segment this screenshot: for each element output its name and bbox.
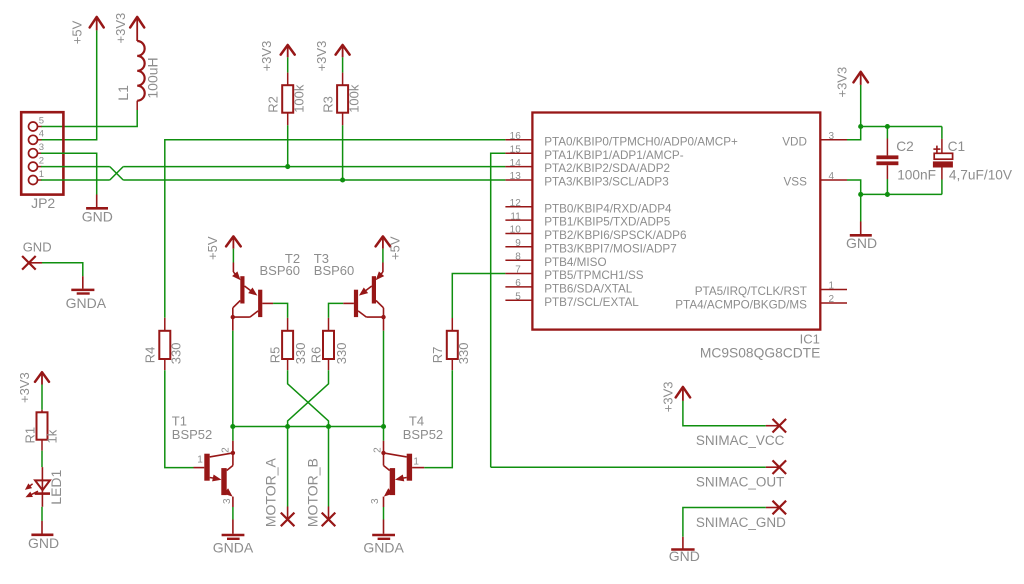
svg-text:1: 1 xyxy=(829,281,835,292)
resistor R5 330 xyxy=(267,318,308,370)
supply +3V3 (SNIMAC_VCC) xyxy=(660,381,690,412)
junction T2 output node xyxy=(230,424,235,429)
wire +3V3 to R3 xyxy=(342,57,344,72)
svg-text:VSS: VSS xyxy=(784,176,808,189)
wire T2 collector to R5 xyxy=(273,303,288,318)
IC1 pin 16 PTA0/KBIP0/TPMCH0/ADP0/AMCP+ xyxy=(505,131,738,148)
svg-text:R1: R1 xyxy=(23,427,38,444)
svg-text:PTB5/TPMCH1/SS: PTB5/TPMCH1/SS xyxy=(544,269,644,282)
svg-text:PTA5/IRQ/TCLK/RST: PTA5/IRQ/TCLK/RST xyxy=(695,285,807,298)
wire T2 output down xyxy=(232,331,234,427)
svg-text:MOTOR_A: MOTOR_A xyxy=(262,457,278,527)
svg-text:12: 12 xyxy=(510,198,522,209)
svg-text:PTA3/KBIP3/SCL/ADP3: PTA3/KBIP3/SCL/ADP3 xyxy=(544,176,669,189)
IC1 pin 8 PTB4/MISO xyxy=(505,251,606,268)
wire net SDA row to IC pin 14 xyxy=(123,166,505,168)
wire VDD pin to rail xyxy=(847,127,861,140)
svg-text:+5V: +5V xyxy=(388,236,403,260)
resistor R1 1k xyxy=(23,410,60,451)
svg-text:13: 13 xyxy=(510,171,522,182)
svg-text:100uH: 100uH xyxy=(144,57,160,98)
IC1 pin 10 PTB2/KBPI6/SPSCK/ADP6 xyxy=(505,225,686,242)
wire +5V to T3 emitter xyxy=(382,249,384,263)
svg-text:PTA4/ACMPO/BKGD/MS: PTA4/ACMPO/BKGD/MS xyxy=(675,299,807,312)
wire GND stub to GNDA xyxy=(42,263,83,276)
svg-text:16: 16 xyxy=(510,131,522,142)
IC1 pin 15 PTA1/KBIP1/ADP1/AMCP- xyxy=(505,144,683,161)
svg-text:2: 2 xyxy=(829,294,835,305)
transistor T3 BSP60 xyxy=(314,251,386,331)
resistor R4 330 xyxy=(143,318,184,370)
svg-text:+3V3: +3V3 xyxy=(113,13,128,44)
net stub MOTOR_A xyxy=(262,427,294,528)
svg-text:3: 3 xyxy=(829,131,835,142)
supply +3V3 (VDD) xyxy=(835,67,868,98)
svg-text:8: 8 xyxy=(515,251,521,262)
svg-text:2: 2 xyxy=(221,447,232,453)
supply +3V3 symbol (L1 top) xyxy=(113,13,144,44)
svg-text:C1: C1 xyxy=(948,139,966,154)
svg-text:+3V3: +3V3 xyxy=(660,381,675,412)
svg-text:1: 1 xyxy=(197,455,203,466)
IC1 pin 4 VSS xyxy=(784,171,847,188)
svg-text:C2: C2 xyxy=(896,139,914,154)
svg-text:BSP60: BSP60 xyxy=(260,263,300,278)
wire R4 to T1 base xyxy=(165,370,194,467)
wire node to T1 collector xyxy=(232,427,234,441)
svg-text:R7: R7 xyxy=(430,347,445,364)
wire top cap rail xyxy=(861,126,942,128)
svg-text:100k: 100k xyxy=(347,84,362,113)
svg-text:R6: R6 xyxy=(308,347,323,364)
svg-text:PTA2/KBIP2/SDA/ADP2: PTA2/KBIP2/SDA/ADP2 xyxy=(544,162,670,175)
resistor R2 100k xyxy=(266,73,307,126)
svg-text:MOTOR_B: MOTOR_B xyxy=(305,458,321,527)
wire node to T4 collector xyxy=(383,427,385,441)
svg-text:9: 9 xyxy=(515,238,521,249)
svg-text:GND: GND xyxy=(669,548,700,564)
svg-text:GND: GND xyxy=(846,235,877,251)
net stub SNIMAC_GND xyxy=(696,501,786,531)
wire R3 to pin13 row xyxy=(342,125,344,180)
svg-text:14: 14 xyxy=(510,158,522,169)
net stub GND label xyxy=(22,240,51,270)
svg-text:GNDA: GNDA xyxy=(363,539,404,555)
svg-text:11: 11 xyxy=(510,211,521,222)
wire T4 emitter to GNDA xyxy=(383,507,385,520)
IC1 pin 5 PTB7/SCL/EXTAL xyxy=(505,291,639,308)
capacitor C2 100nF xyxy=(876,127,936,183)
svg-text:GNDA: GNDA xyxy=(66,295,107,311)
net stub MOTOR_B xyxy=(305,427,336,528)
svg-text:2: 2 xyxy=(372,447,383,453)
svg-text:1: 1 xyxy=(413,457,419,468)
junction MOTOR_A node xyxy=(285,424,290,429)
junction C2 bottom xyxy=(885,192,890,197)
net stub SNIMAC_OUT xyxy=(696,460,786,489)
svg-text:1k: 1k xyxy=(44,429,59,443)
IC1 pin 11 PTB1/KBIP5/TXD/ADP5 xyxy=(505,211,670,228)
svg-text:SNIMAC_OUT: SNIMAC_OUT xyxy=(696,474,785,489)
ground GND (SNIMAC) xyxy=(669,537,700,564)
wire IC pin7 to R7 xyxy=(452,274,505,319)
svg-text:PTB1/KBIP5/TXD/ADP5: PTB1/KBIP5/TXD/ADP5 xyxy=(544,216,671,229)
supply +5V (T3) xyxy=(376,236,403,260)
svg-text:T4: T4 xyxy=(409,413,424,428)
wire SNIMAC_GND to GND xyxy=(683,508,766,537)
svg-text:R5: R5 xyxy=(267,347,282,364)
capacitor C1 4,7uF polarized xyxy=(933,127,1013,183)
svg-text:BSP52: BSP52 xyxy=(172,427,212,442)
svg-text:1: 1 xyxy=(39,169,44,180)
supply +3V3 (R1) xyxy=(17,372,49,403)
transistor T4 BSP52 xyxy=(370,413,443,507)
wire C1 bottom xyxy=(941,180,943,195)
svg-text:R3: R3 xyxy=(320,96,335,113)
wire crossover diagonal pin1 to row14 xyxy=(110,167,123,180)
transistor T2 BSP60 xyxy=(231,251,300,331)
wire net SCL row to IC pin 13 xyxy=(123,179,505,181)
transistor T1 BSP52 xyxy=(172,413,235,507)
svg-text:10: 10 xyxy=(510,225,522,236)
resistor R7 330 xyxy=(430,318,471,370)
svg-text:+3V3: +3V3 xyxy=(835,67,850,98)
resistor R6 330 xyxy=(308,318,349,370)
svg-text:VDD: VDD xyxy=(782,135,807,148)
svg-text:+3V3: +3V3 xyxy=(314,41,329,72)
svg-text:330: 330 xyxy=(293,342,308,364)
wire R6 cross to MOTOR_A node xyxy=(288,370,329,426)
svg-text:L1: L1 xyxy=(115,85,131,101)
svg-text:330: 330 xyxy=(169,342,184,364)
wire LED1 to GND xyxy=(41,507,43,521)
svg-text:PTB0/KBIP4/RXD/ADP4: PTB0/KBIP4/RXD/ADP4 xyxy=(544,202,672,215)
wire SNIMAC_OUT xyxy=(491,466,766,468)
ground GNDA (T4) xyxy=(363,520,404,556)
svg-text:100k: 100k xyxy=(292,84,307,113)
svg-text:PTB3/KBPI7/MOSI/ADP7: PTB3/KBPI7/MOSI/ADP7 xyxy=(544,242,677,255)
wire R7 to T4 base xyxy=(424,370,452,467)
IC1 pin 14 PTA2/KBIP2/SDA/ADP2 xyxy=(505,158,670,175)
wire R1 to LED1 xyxy=(41,451,43,467)
svg-text:330: 330 xyxy=(456,342,471,364)
svg-text:PTB2/KBPI6/SPSCK/ADP6: PTB2/KBPI6/SPSCK/ADP6 xyxy=(544,229,686,242)
wire JP2 pin 2 to crossover xyxy=(41,166,110,168)
svg-text:+5V: +5V xyxy=(205,236,220,260)
svg-text:GND: GND xyxy=(28,535,59,551)
ground GNDA (left) xyxy=(66,276,107,311)
svg-text:4: 4 xyxy=(39,129,44,140)
ground GND (below JP2) xyxy=(82,195,113,225)
wire bottom cap rail xyxy=(861,193,942,195)
svg-text:R4: R4 xyxy=(143,347,158,364)
wire T3 collector to R6 xyxy=(329,303,344,318)
wire +3V3 to R1 xyxy=(41,385,43,410)
svg-text:3: 3 xyxy=(222,498,233,504)
junction R2 on pin14 row xyxy=(285,164,290,169)
svg-text:SNIMAC_GND: SNIMAC_GND xyxy=(696,515,786,530)
svg-text:IC1: IC1 xyxy=(800,331,820,346)
svg-text:330: 330 xyxy=(334,342,349,364)
svg-text:5: 5 xyxy=(515,291,521,302)
svg-text:SNIMAC_VCC: SNIMAC_VCC xyxy=(696,433,785,448)
wire +3V3 to R2 xyxy=(287,57,289,72)
diode LED1 xyxy=(25,467,64,507)
svg-text:15: 15 xyxy=(510,144,522,155)
ground GND (LED1) xyxy=(28,521,59,551)
svg-text:+3V3: +3V3 xyxy=(259,41,274,72)
IC1 pin 9 PTB3/KBPI7/MOSI/ADP7 xyxy=(505,238,676,255)
svg-text:4,7uF/10V: 4,7uF/10V xyxy=(949,168,1013,183)
wire JP2 pin 1 to crossover xyxy=(41,179,110,181)
supply +5V (T2) xyxy=(205,236,241,260)
IC1 pin 7 PTB5/TPMCH1/SS xyxy=(505,265,643,282)
junction C2 top xyxy=(885,124,890,129)
svg-text:PTB6/SDA/XTAL: PTB6/SDA/XTAL xyxy=(544,283,633,296)
svg-text:GND: GND xyxy=(23,240,52,255)
svg-text:6: 6 xyxy=(515,278,521,289)
svg-text:PTB7/SCL/EXTAL: PTB7/SCL/EXTAL xyxy=(544,296,639,309)
svg-text:BSP52: BSP52 xyxy=(403,427,443,442)
svg-text:5: 5 xyxy=(39,115,44,126)
junction R3 on pin13 row xyxy=(340,177,345,182)
supply +3V3 (R3) xyxy=(314,41,350,72)
wire IC pin16 row to R4 xyxy=(165,140,506,318)
svg-text:GNDA: GNDA xyxy=(213,539,254,555)
wire IC pin15 to SNIMAC_OUT corner xyxy=(491,153,506,467)
junction VSS rail xyxy=(858,192,863,197)
wire +3V3 to SNIMAC_VCC xyxy=(683,401,766,426)
wire motor node row xyxy=(233,426,384,428)
IC1 pin 13 PTA3/KBIP3/SCL/ADP3 xyxy=(505,171,668,188)
svg-text:PTA1/KBIP1/ADP1/AMCP-: PTA1/KBIP1/ADP1/AMCP- xyxy=(544,149,684,162)
wire R2 to pin14 row xyxy=(287,125,289,166)
junction +3V3/VDD xyxy=(858,124,863,129)
resistor R3 100k xyxy=(320,73,361,126)
svg-text:PTA0/KBIP0/TPMCH0/ADP0/AMCP+: PTA0/KBIP0/TPMCH0/ADP0/AMCP+ xyxy=(544,135,738,148)
svg-text:GND: GND xyxy=(82,209,113,225)
wire +3V3 down to VDD rail xyxy=(860,85,862,127)
op-amp IC1 box MC9S08QG8CDTE xyxy=(532,113,820,361)
svg-text:+3V3: +3V3 xyxy=(17,372,32,403)
inductor L1 100uH xyxy=(115,41,161,110)
IC1 pin 6 PTB6/SDA/XTAL xyxy=(505,278,632,295)
wire crossover diagonal pin2 to row13 xyxy=(110,167,123,180)
wire L1 to JP2 pin 5 xyxy=(41,110,137,127)
wire C2 bottom xyxy=(886,179,888,194)
wire JP2 pin 3 to GND xyxy=(41,153,97,194)
svg-text:2: 2 xyxy=(39,155,44,166)
wire VSS pin to rail xyxy=(847,180,861,194)
net stub SNIMAC_VCC xyxy=(696,419,786,448)
wire VSS rail to GND xyxy=(860,194,862,221)
svg-text:3: 3 xyxy=(39,142,44,153)
junction MOTOR_B node xyxy=(326,424,331,429)
IC1 pin 12 PTB0/KBIP4/RXD/ADP4 xyxy=(505,198,672,215)
svg-text:R2: R2 xyxy=(266,96,281,113)
connector JP2 xyxy=(21,112,63,211)
svg-text:7: 7 xyxy=(515,265,521,276)
svg-text:3: 3 xyxy=(370,498,381,504)
wire +5V to T2 emitter xyxy=(232,249,234,263)
supply +3V3 (R2) xyxy=(259,41,295,72)
svg-text:BSP60: BSP60 xyxy=(314,263,354,278)
svg-text:MC9S08QG8CDTE: MC9S08QG8CDTE xyxy=(700,345,820,360)
ground GND (VSS) xyxy=(846,222,877,252)
svg-text:JP2: JP2 xyxy=(31,195,55,211)
wire +5V to JP2 pin 4 xyxy=(41,30,97,139)
svg-text:T1: T1 xyxy=(172,413,187,428)
svg-text:+5V: +5V xyxy=(70,20,85,44)
wire R5 cross to MOTOR_B node xyxy=(288,370,329,426)
wire T3 output down xyxy=(383,331,385,427)
supply +5V symbol xyxy=(70,17,104,44)
ground GNDA (T1) xyxy=(213,520,254,556)
wire T1 emitter to GNDA xyxy=(232,507,234,520)
junction T3 output node xyxy=(381,424,386,429)
svg-text:100nF: 100nF xyxy=(897,168,936,183)
IC1 pin 1 PTA5/IRQ/TCLK/RST xyxy=(695,281,847,298)
IC1 pin 2 PTA4/ACMPO/BKGD/MS xyxy=(675,294,847,311)
svg-text:4: 4 xyxy=(829,171,835,182)
svg-text:PTB4/MISO: PTB4/MISO xyxy=(544,256,606,269)
svg-text:LED1: LED1 xyxy=(48,469,64,504)
IC1 pin 3 VDD xyxy=(782,131,847,148)
